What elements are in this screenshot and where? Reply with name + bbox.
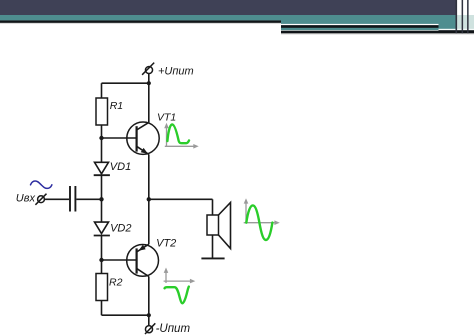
svg-text:R1: R1 [110, 100, 123, 112]
svg-text:Uвх: Uвх [16, 192, 36, 204]
svg-text:VT1: VT1 [157, 111, 176, 123]
svg-text:VD1: VD1 [110, 161, 131, 173]
svg-text:+Uпит: +Uпит [158, 65, 194, 77]
svg-text:-Uпит: -Uпит [156, 323, 191, 335]
svg-text:R2: R2 [109, 277, 123, 289]
svg-text:VT2: VT2 [156, 238, 176, 250]
svg-text:VD2: VD2 [110, 222, 131, 234]
